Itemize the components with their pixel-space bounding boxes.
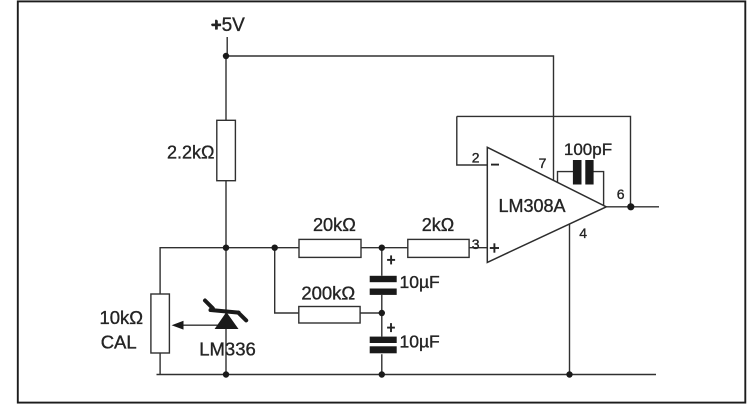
svg-text:100pF: 100pF (564, 140, 612, 159)
svg-text:200kΩ: 200kΩ (301, 282, 355, 303)
svg-text:2.2kΩ: 2.2kΩ (167, 142, 214, 162)
svg-text:+5V: +5V (211, 15, 246, 36)
svg-text:LM308A: LM308A (498, 196, 565, 216)
svg-text:10kΩ: 10kΩ (99, 307, 143, 328)
svg-text:4: 4 (579, 225, 587, 241)
svg-text:10µF: 10µF (400, 272, 440, 292)
svg-text:LM336: LM336 (199, 339, 256, 360)
svg-text:CAL: CAL (101, 331, 137, 352)
svg-text:7: 7 (539, 155, 547, 171)
svg-text:10µF: 10µF (400, 331, 440, 351)
svg-text:20kΩ: 20kΩ (313, 215, 356, 235)
svg-text:2: 2 (472, 150, 480, 166)
svg-text:2kΩ: 2kΩ (422, 215, 454, 235)
svg-text:6: 6 (617, 186, 625, 202)
svg-text:3: 3 (472, 236, 480, 252)
